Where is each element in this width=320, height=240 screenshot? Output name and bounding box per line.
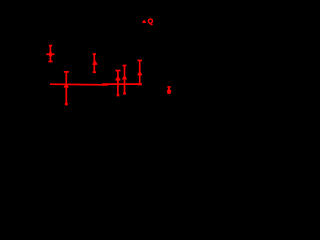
svg-text:Q: Q	[148, 16, 154, 25]
